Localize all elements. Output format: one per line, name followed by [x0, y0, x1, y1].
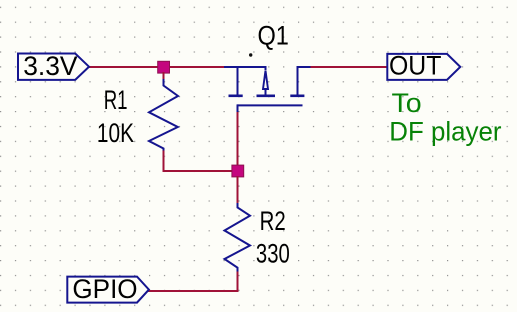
resistor R1	[149, 79, 178, 152]
svg-text:DF player: DF player	[389, 117, 501, 147]
label R2	[260, 206, 286, 236]
wire R2 bottom to GPIO flag	[148, 272, 238, 292]
wire node A down to R1 top	[163, 72, 165, 80]
wire 3.3V flag to node A	[89, 66, 164, 68]
label R1	[104, 85, 128, 115]
svg-text:Q1: Q1	[258, 20, 289, 50]
junction node A	[158, 61, 170, 73]
wire node A to Q1 source lead	[163, 66, 224, 68]
svg-text:R2: R2	[260, 206, 286, 236]
svg-text:R1: R1	[104, 85, 128, 115]
label Q1	[258, 20, 289, 50]
svg-text:OUT: OUT	[389, 51, 441, 81]
junction node B	[232, 165, 244, 177]
value 10K	[97, 118, 134, 148]
svg-text:GPIO: GPIO	[72, 274, 137, 304]
annotation To	[392, 88, 422, 118]
value 330	[256, 238, 290, 268]
svg-text:To: To	[392, 88, 422, 118]
power flag 3.3V	[18, 51, 89, 81]
pin 1 dot of Q1	[249, 53, 252, 56]
annotation DF player	[389, 117, 501, 147]
resistor R2	[225, 203, 251, 273]
port flag OUT	[387, 51, 460, 81]
svg-text:330: 330	[256, 238, 290, 268]
transistor Q1	[224, 66, 312, 113]
svg-text:10K: 10K	[97, 118, 134, 148]
wire Q1 drain to OUT flag	[311, 66, 388, 68]
port flag GPIO	[67, 274, 149, 304]
wire node B down to R2 top	[237, 176, 239, 204]
wire Q1 gate down to node B	[237, 112, 239, 166]
svg-text:3.3V: 3.3V	[23, 51, 78, 81]
wire R1 bottom to node B	[164, 151, 234, 172]
